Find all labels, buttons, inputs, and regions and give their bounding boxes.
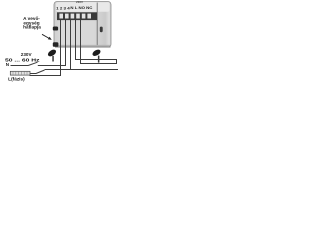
svg-text:hátlapja: hátlapja xyxy=(23,25,41,30)
svg-text:230V: 230V xyxy=(76,0,83,4)
svg-text:L(fázis): L(fázis) xyxy=(8,76,25,81)
svg-text:N L NO NC: N L NO NC xyxy=(70,6,92,10)
svg-text:1 2 3 4: 1 2 3 4 xyxy=(56,7,69,11)
svg-text:50 ... 60 Hz: 50 ... 60 Hz xyxy=(5,57,41,62)
